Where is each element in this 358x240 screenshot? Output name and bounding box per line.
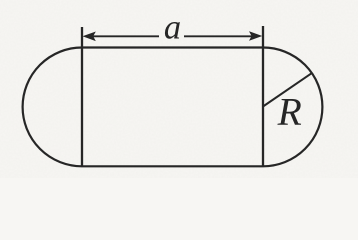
stadium outline bbox=[23, 48, 323, 167]
svg-text:a: a bbox=[164, 9, 181, 47]
dimension line right segment bbox=[184, 35, 252, 37]
right junction line bbox=[262, 26, 264, 166]
dimension line left segment bbox=[93, 35, 159, 37]
dimension arrowhead right bbox=[249, 31, 262, 41]
paper background bbox=[0, 0, 358, 178]
svg-text:R: R bbox=[277, 89, 302, 133]
radius line R bbox=[263, 73, 312, 106]
dimension arrowhead left bbox=[83, 32, 96, 42]
left junction line bbox=[81, 27, 83, 166]
